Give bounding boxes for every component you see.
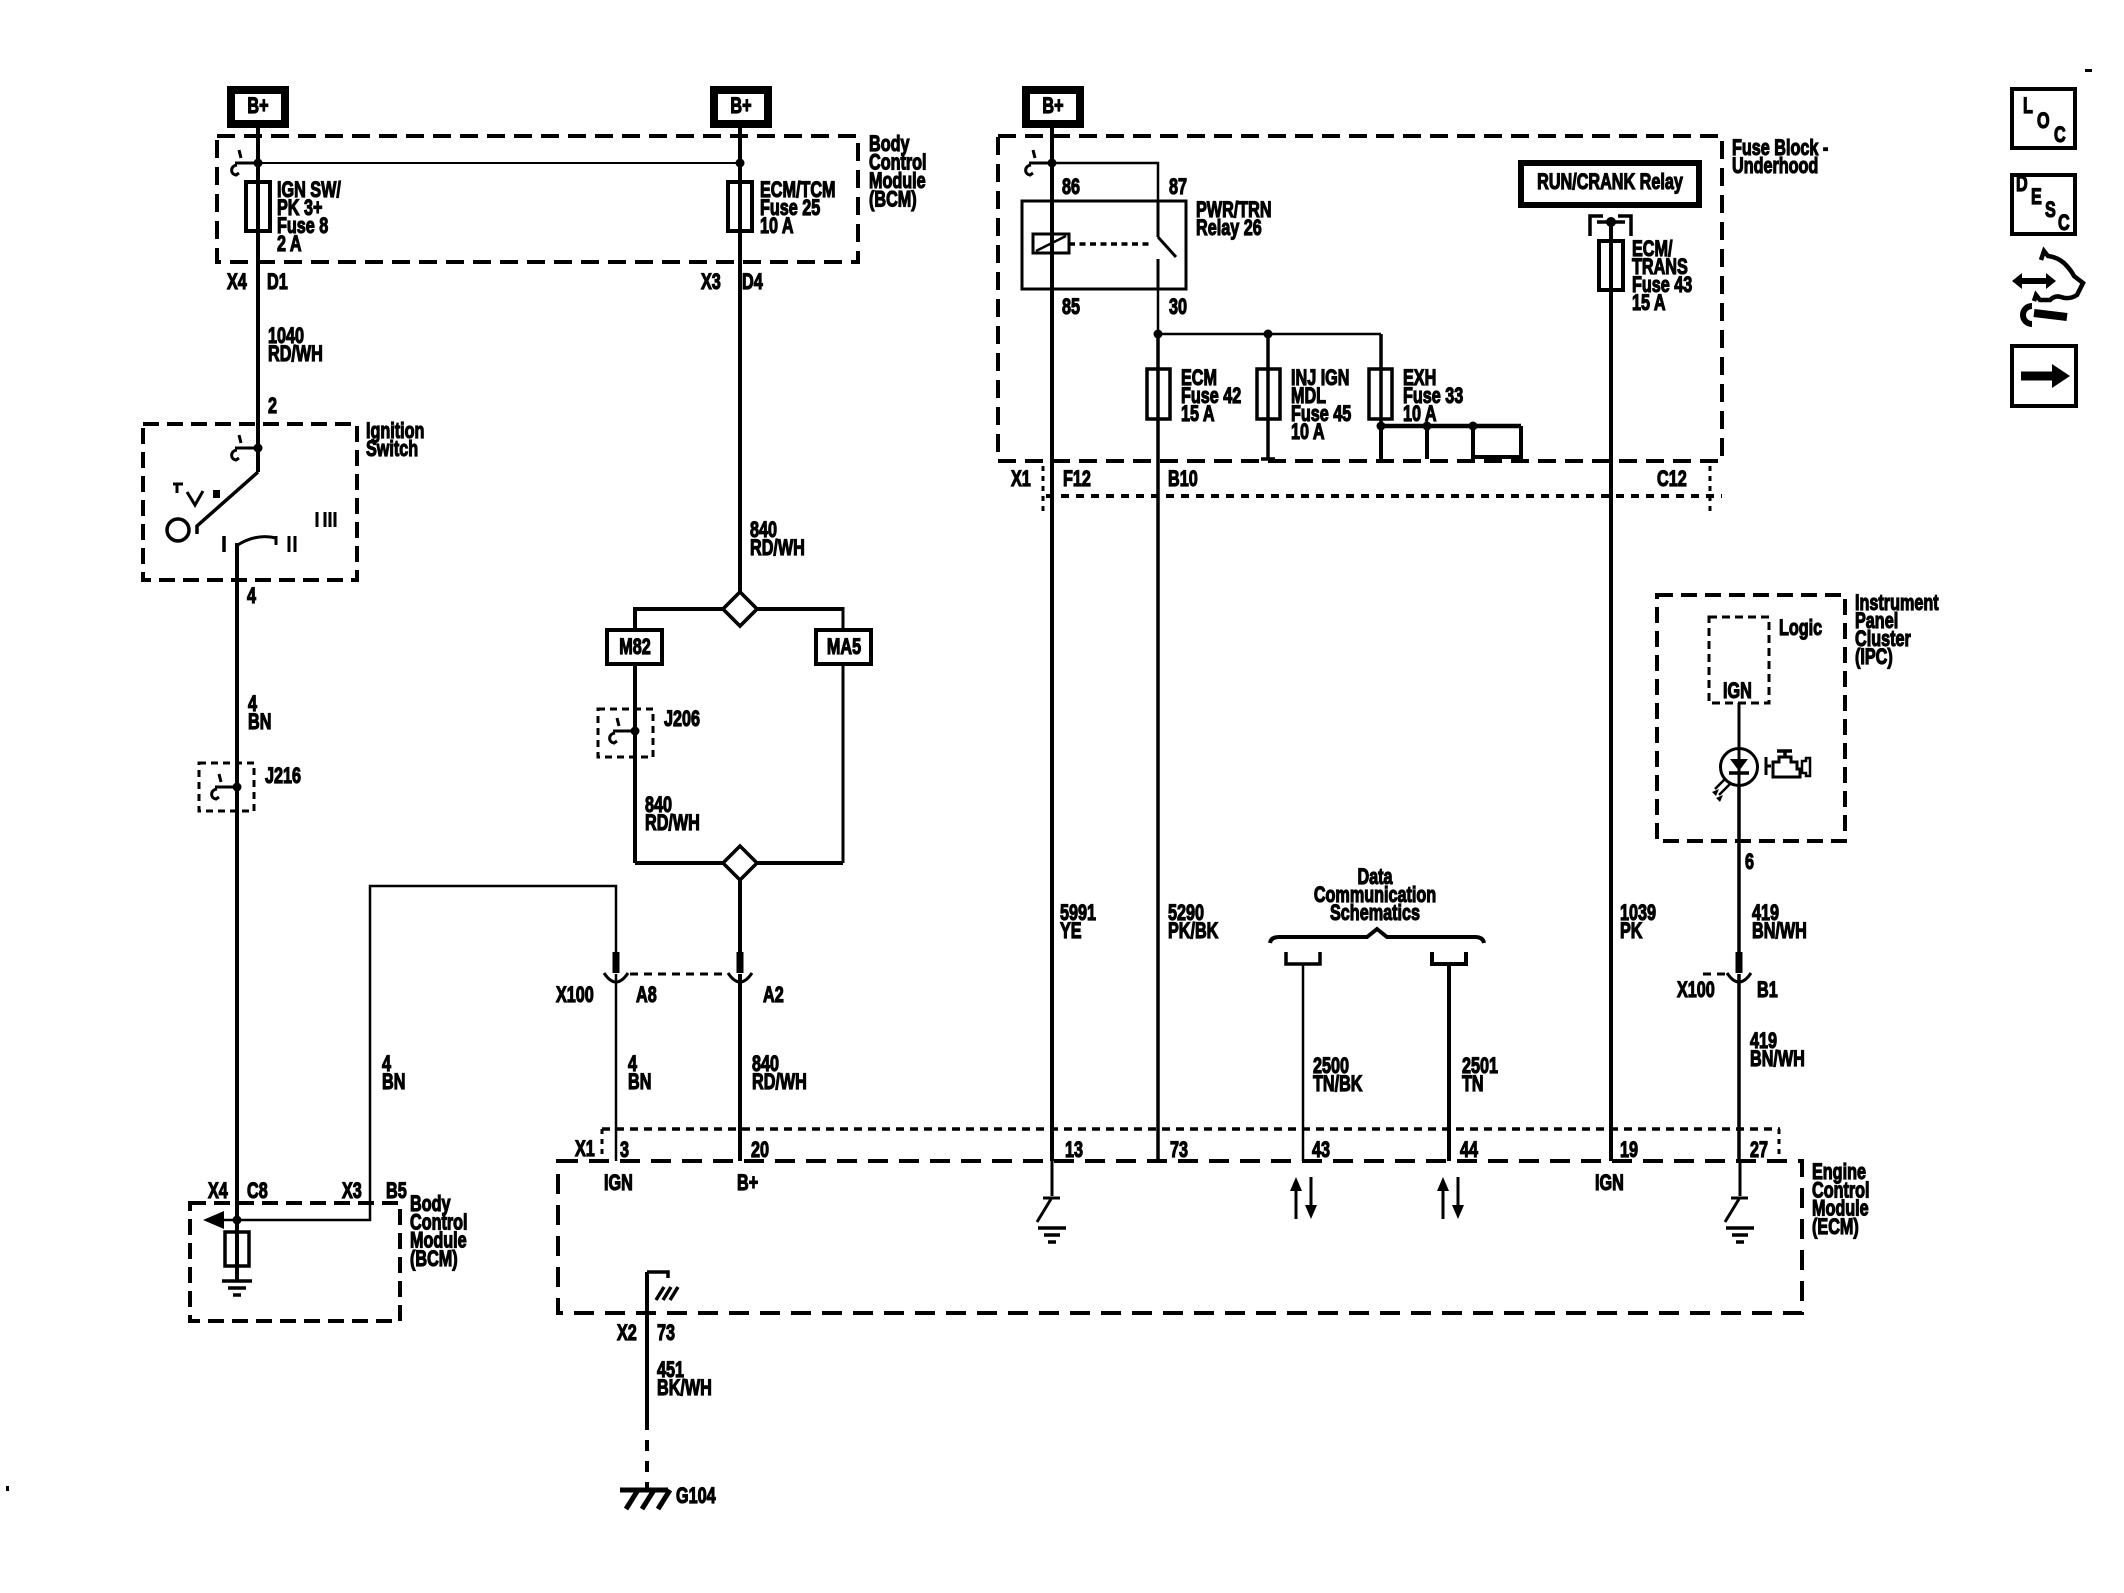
wire X100 A8 to ECM pin3 4 BN <box>615 974 618 1161</box>
svg-text:C: C <box>2058 212 2070 236</box>
wire loop bottom horizontal <box>635 861 843 865</box>
icon forward arrow box <box>2012 346 2076 406</box>
Instrument Panel Cluster dashed box <box>1657 595 1845 841</box>
svg-text:X3: X3 <box>342 1180 362 1204</box>
wire fuse 33 to bus <box>1379 334 1383 428</box>
splice diamond S2 <box>723 846 757 880</box>
svg-text:BodyControlModule(BCM): BodyControlModule(BCM) <box>869 133 927 213</box>
svg-text:4BN: 4BN <box>248 693 271 735</box>
svg-text:X3: X3 <box>701 271 721 295</box>
wire fuse 42 through to ECM pin 73 <box>1156 334 1160 1161</box>
ground G104 chassis symbol <box>620 1490 670 1509</box>
wire relay 30 feed bus <box>1158 289 1381 334</box>
junction dot ignition input <box>254 444 263 453</box>
svg-text:B1: B1 <box>1757 979 1778 1003</box>
wiper arc contact <box>236 536 276 546</box>
junction dot J206 <box>631 727 640 736</box>
fuse F42 ECM Fuse 42 15A <box>1147 369 1170 419</box>
wire M82 to splice S2 840 RD/WH <box>633 664 637 863</box>
svg-text:IGN: IGN <box>1723 680 1752 704</box>
svg-text:B+: B+ <box>737 1172 758 1196</box>
clip symbol at ignition switch input <box>232 435 257 460</box>
stray mark top right <box>2085 69 2092 72</box>
junction J206 dashed box <box>598 709 653 757</box>
node B+ battery feed 1 <box>231 90 285 124</box>
svg-text:F12: F12 <box>1063 468 1091 492</box>
connector X100 body dashed line <box>630 973 726 976</box>
wire 2500 TN/BK to ECM pin43 <box>1302 964 1305 1161</box>
connector dotted line under fuse block <box>1046 494 1722 498</box>
node B+ battery feed 3 <box>1026 90 1080 124</box>
svg-text:PWR/TRNRelay 26: PWR/TRNRelay 26 <box>1196 199 1272 241</box>
clip symbol at J206 <box>610 718 634 743</box>
LED diode triangle <box>1730 759 1748 771</box>
fuse F8 IGN SW / PK 3+ Fuse 8 2A <box>246 182 270 231</box>
svg-text:X100: X100 <box>556 984 594 1008</box>
connector X1 separator left <box>601 1129 604 1161</box>
ground symbol BCM <box>222 1281 252 1295</box>
splice diamond S1 <box>723 592 757 626</box>
Body Control Module bottom dashed box <box>190 1203 400 1321</box>
svg-text:X1: X1 <box>575 1138 595 1162</box>
junction dot B+3 <box>1048 159 1057 168</box>
wire loop top horizontal <box>635 607 843 611</box>
connector separator X1 fuse block <box>1042 466 1045 512</box>
connector separator C12 fuse block <box>1709 466 1712 512</box>
LED cathode bar <box>1729 771 1749 775</box>
switch to ground at pin 13 <box>1037 1161 1060 1222</box>
wire bus staple drop <box>1473 426 1521 457</box>
wire splice S2 to X100 A2 <box>738 880 742 953</box>
switch to ground at pin 27 <box>1725 1161 1748 1222</box>
junction dot fuse45 feed <box>1264 330 1273 339</box>
svg-text:EngineControlModule(ECM): EngineControlModule(ECM) <box>1812 1161 1870 1240</box>
serial data arrows pin 44 <box>1442 1190 1445 1219</box>
svg-text:451BK/WH: 451BK/WH <box>657 1359 712 1401</box>
svg-text:2: 2 <box>268 395 277 419</box>
svg-text:Logic: Logic <box>1779 617 1822 641</box>
connector X100 B1 dashed stub <box>1703 973 1725 976</box>
svg-text:L: L <box>2023 95 2033 119</box>
svg-text:C8: C8 <box>247 1180 268 1204</box>
connector X1 dotted line at ECM <box>602 1127 1780 1131</box>
svg-text:S: S <box>2045 199 2056 223</box>
wire BCM B5 branch 4 BN up-over <box>370 886 616 1221</box>
ground symbol pin 27 <box>1726 1228 1754 1242</box>
node B+ battery feed 2 <box>714 90 768 124</box>
junction dot RUN/CRANK output <box>1606 217 1616 227</box>
svg-text:MA5: MA5 <box>827 636 861 660</box>
connector X100 pin A2 female arc <box>728 973 752 982</box>
svg-text:5290PK/BK: 5290PK/BK <box>1168 902 1218 944</box>
svg-text:E: E <box>2031 186 2042 210</box>
svg-text:G104: G104 <box>676 1485 716 1509</box>
LED indicator circle <box>1721 749 1758 786</box>
fuse F33 EXH Fuse 33 10A <box>1369 369 1392 419</box>
wire fuse33 output bus <box>1381 424 1521 429</box>
relay coil-contact dashed link <box>1069 242 1152 246</box>
connector M82 box <box>607 630 662 664</box>
relay RUN/CRANK label box <box>1521 163 1699 205</box>
svg-text:INJ IGNMDLFuse 4510 A: INJ IGNMDLFuse 4510 A <box>1291 367 1352 445</box>
svg-text:A8: A8 <box>636 984 657 1008</box>
wire X2-73 451 BK/WH <box>645 1272 649 1419</box>
partial ground symbol X2 <box>656 1287 678 1300</box>
check engine icon <box>1766 757 1771 775</box>
svg-text:X4: X4 <box>208 1180 228 1204</box>
connector clip serial data 2 <box>1432 952 1466 964</box>
svg-text:X1: X1 <box>1011 468 1031 492</box>
svg-text:X2: X2 <box>617 1322 637 1346</box>
svg-text:BodyControlModule(BCM): BodyControlModule(BCM) <box>410 1193 468 1272</box>
wire ignition output 4 BN to BCM C8 <box>235 543 239 1280</box>
svg-text:J206: J206 <box>664 708 700 732</box>
svg-text:Fuse Block -Underhood: Fuse Block -Underhood <box>1732 137 1828 179</box>
contact circle position detent <box>167 519 189 541</box>
svg-text:M82: M82 <box>619 636 650 660</box>
wire internal B+ bus <box>258 162 740 164</box>
svg-text:B10: B10 <box>1168 468 1198 492</box>
svg-text:2501TN: 2501TN <box>1462 1055 1498 1097</box>
position marker III <box>317 512 335 527</box>
svg-text:86: 86 <box>1062 176 1080 200</box>
ground symbol pin 13 <box>1038 1228 1066 1242</box>
svg-text:73: 73 <box>657 1322 675 1346</box>
position marker I <box>222 536 226 552</box>
position marker IV <box>173 484 203 505</box>
svg-text:6: 6 <box>1745 851 1754 875</box>
wire bus drop 2 <box>1425 426 1429 459</box>
junction dot fuse42 feed <box>1154 330 1163 339</box>
wire MA5 to splice S2 <box>842 664 845 863</box>
wire ignition input stub <box>256 448 260 472</box>
wire X100 A2 to ECM pin20 840 RD/WH <box>738 974 742 1161</box>
svg-text:30: 30 <box>1169 296 1187 320</box>
Engine Control Module dashed box <box>558 1161 1802 1313</box>
junction J216 dashed box <box>199 763 254 811</box>
connector X100 pin B1 male bar <box>1736 952 1743 973</box>
Fuse Block Underhood dashed box <box>998 136 1722 461</box>
position marker II <box>289 536 295 552</box>
fuse F25 ECM/TCM Fuse 25 10A <box>728 182 752 231</box>
wire 2501 TN to ECM pin44 <box>1447 964 1451 1161</box>
svg-text:ECMFuse 4215 A: ECMFuse 4215 A <box>1181 367 1241 427</box>
junction dot at Fuse 8 feed <box>254 159 263 168</box>
svg-text:1039PK: 1039PK <box>1620 902 1656 944</box>
wire X100 B1 to ECM pin27 419 BN/WH <box>1737 974 1741 1161</box>
relay PWR/TRN Relay 26 box <box>1022 201 1186 289</box>
svg-text:X4: X4 <box>227 271 247 295</box>
clip symbol at B+1 junction <box>232 150 257 175</box>
arrowhead BCM internal <box>203 1211 224 1229</box>
connector MA5 box <box>816 630 871 664</box>
wire to relay pin 87 <box>1052 163 1158 201</box>
svg-text:ECM/TRANSFuse 4315 A: ECM/TRANSFuse 4315 A <box>1632 238 1693 316</box>
svg-text:5991YE: 5991YE <box>1060 902 1096 944</box>
wire B+1 to Fuse 8 <box>256 128 260 448</box>
wire BCM internal bus with arrow <box>208 1219 371 1222</box>
connector X100 pin A2 male bar <box>737 952 744 973</box>
svg-text:IgnitionSwitch: IgnitionSwitch <box>366 420 424 462</box>
connector clip serial data 1 <box>1286 952 1320 964</box>
ignition switch dashed box <box>143 424 357 580</box>
LED wire through <box>1738 749 1741 786</box>
icon LOC box <box>2012 89 2075 148</box>
svg-text:DataCommunicationSchematics: DataCommunicationSchematics <box>1314 866 1436 926</box>
svg-text:C12: C12 <box>1657 468 1687 492</box>
junction dot at Fuse 25 feed <box>736 159 745 168</box>
wire M82 drop <box>633 607 637 630</box>
svg-text:IGN: IGN <box>1595 1172 1624 1196</box>
svg-text:J216: J216 <box>265 765 301 789</box>
junction dot J216 <box>233 783 242 792</box>
svg-text:D1: D1 <box>267 271 288 295</box>
connector X1 separator right <box>1778 1129 1781 1161</box>
icon vehicle with double arrow and wrench <box>2012 251 2083 324</box>
wire RUN/CRANK to fuse 43 and ECM pin 19 <box>1609 222 1613 1161</box>
svg-text:840RD/WH: 840RD/WH <box>645 794 700 836</box>
clip symbol at B+3 junction <box>1026 150 1051 175</box>
connector X100 pin A8 male bar <box>613 952 620 973</box>
ECM internal ground lead X2 <box>647 1272 668 1278</box>
stray mark bottom left <box>6 1486 9 1491</box>
RUN/CRANK relay output terminal brackets <box>1590 216 1631 236</box>
svg-text:1040RD/WH: 1040RD/WH <box>268 325 323 367</box>
svg-text:B+: B+ <box>730 95 751 119</box>
svg-text:C: C <box>2054 124 2066 148</box>
logic dashed box <box>1709 617 1769 703</box>
svg-text:2500TN/BK: 2500TN/BK <box>1313 1055 1363 1097</box>
fuse F43 ECM/TRANS Fuse 43 15A <box>1599 241 1623 290</box>
junction dot bus 1 <box>1377 422 1386 431</box>
wire dashed to G104 <box>645 1419 649 1491</box>
serial data arrows pin 43 <box>1295 1190 1298 1219</box>
junction dot bus 3 <box>1469 422 1478 431</box>
LED emission arrows <box>1715 778 1730 795</box>
svg-text:A2: A2 <box>763 984 784 1008</box>
svg-text:O: O <box>2037 110 2050 134</box>
svg-text:B+: B+ <box>247 95 268 119</box>
wire LED to IPC pin 6 <box>1737 786 1741 953</box>
junction dot bus 2 <box>1423 422 1432 431</box>
icon DESC box <box>2012 173 2075 236</box>
svg-text:4BN: 4BN <box>628 1053 651 1095</box>
svg-text:4BN: 4BN <box>382 1053 405 1095</box>
fuse F45 INJ IGN MDL Fuse 45 10A <box>1257 369 1280 419</box>
wire MA5 drop <box>842 607 845 630</box>
svg-text:B+: B+ <box>1042 95 1063 119</box>
wire logic to LED <box>1738 703 1741 749</box>
svg-text:B5: B5 <box>386 1180 407 1204</box>
svg-text:840RD/WH: 840RD/WH <box>750 519 805 561</box>
svg-text:4: 4 <box>247 585 256 609</box>
svg-text:87: 87 <box>1169 176 1187 200</box>
svg-text:EXHFuse 3310 A: EXHFuse 3310 A <box>1403 367 1464 427</box>
svg-text:X100: X100 <box>1677 979 1715 1003</box>
redraw diamond S1 over lines <box>723 592 757 626</box>
svg-text:IGN SW/PK 3+Fuse 82 A: IGN SW/PK 3+Fuse 82 A <box>277 179 341 257</box>
clip symbol at J216 <box>212 774 236 799</box>
junction dot BCM C8 <box>233 1216 242 1225</box>
svg-text:ECM/TCMFuse 2510 A: ECM/TCMFuse 2510 A <box>760 179 836 239</box>
fuse element inside BCM <box>225 1232 249 1266</box>
svg-text:419BN/WH: 419BN/WH <box>1750 1030 1805 1072</box>
svg-text:85: 85 <box>1062 296 1080 320</box>
svg-text:D4: D4 <box>742 271 763 295</box>
relay coil <box>1033 234 1069 253</box>
svg-text:InstrumentPanelCluster(IPC): InstrumentPanelCluster(IPC) <box>1855 592 1939 670</box>
connector X100 pin A8 female arc <box>604 973 628 982</box>
svg-text:IGN: IGN <box>604 1172 633 1196</box>
wire fuse 45 stub <box>1261 334 1275 459</box>
relay switch contact <box>1158 201 1176 289</box>
svg-text:840RD/WH: 840RD/WH <box>752 1053 807 1095</box>
wire B+3 into fuse block <box>1050 128 1054 1161</box>
Body Control Module top dashed box <box>217 136 858 262</box>
connector X100 pin B1 female arc <box>1727 973 1751 982</box>
brace over data wires <box>1270 929 1484 943</box>
svg-text:D: D <box>2016 173 2028 197</box>
wire B+2 to Fuse 25 <box>738 128 742 593</box>
svg-text:419BN/WH: 419BN/WH <box>1752 902 1807 944</box>
switch blade ignition <box>197 472 258 534</box>
wire bus drop 1 <box>1379 426 1383 459</box>
svg-text:RUN/CRANK Relay: RUN/CRANK Relay <box>1537 171 1683 195</box>
